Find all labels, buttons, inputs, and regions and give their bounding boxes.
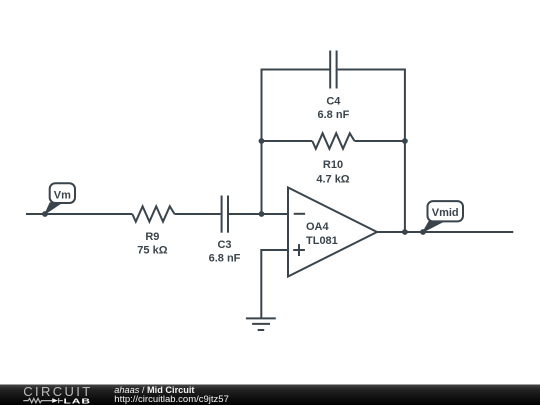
node junction feedback left at input <box>259 211 265 217</box>
svg-text:C3: C3 <box>217 239 231 251</box>
label op-amp OA4 TL081 <box>306 221 338 247</box>
op-amp U1 triangle OA4 <box>288 188 377 277</box>
footer title text <box>114 385 194 395</box>
net flag Vm <box>45 183 75 214</box>
capacitor C3 <box>222 196 228 233</box>
wire C4 right along top and down feedback right vertical <box>338 70 405 233</box>
svg-text:Vmid: Vmid <box>432 207 459 219</box>
logo LAB text <box>64 397 91 405</box>
net flag Vmid <box>423 201 463 232</box>
label R10 value <box>316 159 349 186</box>
wire R10 left lead <box>262 140 313 142</box>
ground <box>246 318 276 330</box>
node junction R10 right <box>402 138 408 144</box>
label R9 value <box>137 231 167 257</box>
resistor R9 <box>132 206 174 221</box>
svg-text:LAB: LAB <box>64 397 91 405</box>
node junction feedback at output <box>402 229 408 235</box>
label C3 value <box>209 239 241 264</box>
svg-text:6.8 nF: 6.8 nF <box>209 252 241 264</box>
svg-text:OA4: OA4 <box>306 221 330 233</box>
op-amp minus input symbol <box>294 213 305 215</box>
footer url text <box>114 394 229 405</box>
node junction R10 left <box>259 138 265 144</box>
svg-text:R10: R10 <box>323 159 343 171</box>
label C4 value <box>318 96 350 122</box>
svg-text:TL081: TL081 <box>306 235 338 247</box>
wire R9 to C3 <box>175 213 221 215</box>
footer bar <box>0 385 540 405</box>
wire input segment from left edge to R9 <box>26 213 132 215</box>
wire feedback left vertical and top segment to C4 <box>262 70 331 215</box>
logo CIRCUIT text <box>23 384 90 399</box>
svg-text:R9: R9 <box>145 231 159 243</box>
wire op-amp non-inverting input to ground <box>261 250 288 318</box>
wire output <box>377 231 513 233</box>
capacitor C4 <box>330 51 336 89</box>
resistor R10 <box>312 133 354 149</box>
node junction at Vmid <box>420 229 426 235</box>
svg-text:Vm: Vm <box>54 189 71 201</box>
logo waveform and diode <box>23 398 63 403</box>
svg-text:C4: C4 <box>326 96 341 108</box>
svg-text:75 kΩ: 75 kΩ <box>137 245 167 257</box>
wire R10 right lead <box>355 140 405 142</box>
wire C3 to op-amp inverting input <box>229 213 288 215</box>
node junction at Vm <box>42 211 48 217</box>
svg-text:http://circuitlab.com/c9jtz57: http://circuitlab.com/c9jtz57 <box>114 394 229 405</box>
svg-text:6.8 nF: 6.8 nF <box>318 109 350 121</box>
svg-text:4.7 kΩ: 4.7 kΩ <box>316 173 349 185</box>
op-amp plus input symbol <box>293 244 305 256</box>
